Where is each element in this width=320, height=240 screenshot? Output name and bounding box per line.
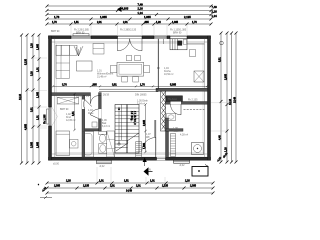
outer wall right [208,36,211,160]
legend box bottom right [192,165,209,177]
top dimension line row3 [46,11,218,18]
misc spec text [60,95,198,111]
svg-text:2,385: 2,385 [54,185,61,188]
misc tiny interior texts [86,94,147,99]
svg-text:1,24: 1,24 [138,11,144,15]
room 1.08 label [173,127,188,137]
svg-text:1,76: 1,76 [52,21,57,24]
svg-text:1,26: 1,26 [156,21,161,24]
svg-text:2,26: 2,26 [185,180,190,183]
kitchen divider line V1 [157,39,159,89]
svg-text:,885: ,885 [144,21,149,24]
hall interior vertical dim line [143,103,147,153]
svg-text:o.K.Fb: o.K.Fb [76,95,84,98]
inner finish line bottom [52,153,208,155]
svg-text:31,48 m²: 31,48 m² [97,76,107,79]
svg-text:1,76: 1,76 [192,21,197,24]
svg-text:10,52 m²: 10,52 m² [164,73,174,76]
svg-text:±0,00: ±0,00 [53,163,60,166]
sofa L-shape [56,45,77,78]
svg-text:12,05 m²: 12,05 m² [66,119,76,122]
svg-text:3,51: 3,51 [112,84,117,87]
coffee table [77,61,93,71]
witness lines right [211,103,226,131]
hall partition thin wall [155,120,157,157]
svg-text:1,51: 1,51 [74,21,79,24]
svg-text:1,385: 1,385 [37,91,40,98]
bath door opening + arc [90,109,101,119]
svg-text:6,13 m²: 6,13 m² [102,125,110,128]
svg-text:2,26: 2,26 [31,43,34,48]
svg-text:7,49: 7,49 [138,2,144,6]
inner finish line left [54,39,56,158]
door leaves arcs [118,39,130,51]
kind room door opening + leaf [82,100,92,110]
svg-text:DIN 18065: DIN 18065 [135,94,147,97]
svg-text:2,26: 2,26 [138,7,144,11]
left dimension line col3 [31,34,35,165]
svg-text:1,76: 1,76 [140,84,145,87]
svg-text:4,48: 4,48 [219,135,222,140]
stairs outline [115,105,139,154]
svg-text:1,01: 1,01 [99,180,104,183]
svg-text:Abst.: Abst. [173,130,179,133]
Hs-Anst shaft dark box [166,96,183,102]
right small circle symbol [220,41,224,45]
svg-text:2,135: 2,135 [184,15,191,19]
chair right [144,66,150,73]
svg-text:3,51: 3,51 [72,111,75,116]
svg-text:N: N [149,169,151,172]
svg-text:1,885: 1,885 [144,15,151,19]
chairs top [127,55,132,61]
window top-left living [71,34,91,39]
left dimension line col1 [19,34,23,165]
svg-text:1,76: 1,76 [54,15,60,19]
svg-text:2,635: 2,635 [225,73,228,80]
bottom left partial row4 [40,197,52,199]
kind room interior dim line [72,93,76,131]
bath label [102,119,110,128]
bed kind room [56,131,70,156]
top dimension line row4 [46,15,213,20]
svg-text:4,855: 4,855 [25,123,28,130]
kind room label [66,113,76,122]
svg-text:10,24: 10,24 [229,98,232,105]
svg-text:1,01: 1,01 [37,67,40,72]
bottom dimension line row2 [46,185,215,190]
entrance step right / podest [174,160,190,167]
bottom dimension line row3 [46,190,215,195]
svg-text:26/19: 26/19 [103,94,110,97]
svg-text:*: * [38,184,39,187]
svg-text:Fb 2,385/2,135: Fb 2,385/2,135 [120,29,137,32]
svg-text:BRH 90: BRH 90 [51,30,60,33]
windfang label [146,133,151,139]
stair middle rail [126,105,128,154]
kitchen shaft X square [194,71,204,82]
svg-text:3,26: 3,26 [31,71,34,76]
svg-text:2,01: 2,01 [110,185,115,188]
kitchen counter right [190,50,196,57]
hall door leaf and swing arc [142,138,156,152]
svg-text:3,76: 3,76 [62,84,67,87]
radiator under stairs [136,142,142,159]
right dimension line col1 [219,32,223,164]
right dimension line col3 [229,32,233,164]
svg-text:2,01: 2,01 [136,185,141,188]
interior dim line above H1 [52,84,208,88]
entrance step left [97,160,112,168]
outer wall bottom [49,157,211,160]
top dimension line row5 detailed [46,21,213,26]
bath top wall H2 [85,129,99,131]
room 1.08 door arc [171,102,182,105]
wall H4 entrance top [166,129,183,132]
svg-text:14,49: 14,49 [126,190,133,193]
interior wall H1 left segment [52,88,208,95]
svg-text:3,51: 3,51 [31,107,34,112]
svg-text:7,49: 7,49 [212,5,218,9]
wall V2 kind/hall [82,96,85,158]
svg-text:2,385: 2,385 [190,185,197,188]
svg-text:5,385: 5,385 [170,84,177,87]
chair left [110,66,117,73]
svg-text:5,135: 5,135 [25,58,28,65]
shower [107,131,115,157]
chairs bottom [122,77,128,83]
window top kitchen-left [154,36,167,39]
bottom dimension line row1 [46,180,215,185]
wardrobe kind room [57,97,78,104]
svg-text:10,49: 10,49 [234,96,237,103]
svg-text:17,5/28,0: 17,5/28,0 [133,111,136,125]
wall V3 hall/bath [99,96,102,131]
svg-text:Diele: Diele [88,112,94,115]
svg-text:-0,02: -0,02 [179,164,185,167]
svg-text:2,01: 2,01 [123,21,128,24]
svg-text:-0,02: -0,02 [99,165,105,168]
window top kitchen-right with counter detail [170,36,204,50]
hall shelf [92,122,97,127]
door living->hall arc [91,96,99,104]
up arrow [118,108,120,145]
svg-text:2,135: 2,135 [162,185,169,188]
witness lines top [71,25,187,35]
svg-text:1,26: 1,26 [225,147,228,152]
witness lines left [28,58,47,128]
svg-text:2,26: 2,26 [66,180,71,183]
top dimension line row2 [46,7,218,14]
svg-text:3,385: 3,385 [31,141,34,148]
kitchen label [164,67,174,76]
break line [116,133,139,151]
bath sink [99,144,107,154]
svg-text:,885: ,885 [92,84,97,87]
north arrow top [117,7,122,13]
inner finish line top [52,41,208,43]
window swing V left [52,108,58,126]
svg-text:1,01: 1,01 [150,180,155,183]
radiator room 1.08 [171,134,176,157]
svg-text:5,51: 5,51 [219,57,222,62]
sideboard top [93,44,104,55]
hall2 label [137,100,148,106]
secondary finish lines [55,42,204,44]
outer wall top [49,36,211,160]
svg-text:5,64 m²: 5,64 m² [137,103,145,106]
svg-text:4,28 m²: 4,28 m² [180,134,188,137]
svg-text:1,51: 1,51 [124,180,129,183]
svg-text:1,01: 1,01 [37,115,40,120]
inner finish line right [203,39,205,158]
svg-text:4,305: 4,305 [122,7,129,11]
svg-text:1,885: 1,885 [37,141,40,148]
plant [74,46,83,56]
svg-text:BRH 90: BRH 90 [60,108,69,111]
stairs wall V4 hatched [161,91,166,131]
svg-text:Fb 2,135: Fb 2,135 [188,99,198,102]
svg-text:2,01: 2,01 [97,21,102,24]
svg-text:1,385: 1,385 [172,21,179,24]
wall V5 entrance/1.08 [166,131,169,157]
open boundary double line middle [99,88,158,90]
living room label [97,70,114,79]
sink room 1.08 top [167,114,176,121]
window labels above top wall [51,29,187,35]
wall H3 under shaft [166,102,208,105]
svg-text:2,135: 2,135 [83,185,90,188]
svg-text:Fb 1,385: Fb 1,385 [44,114,47,124]
door 1.08 leaf + arc [180,104,182,115]
bathtub / wardrobe [82,132,94,158]
svg-text:BRH 90: BRH 90 [173,32,182,35]
svg-text:18 Stg.: 18 Stg. [130,111,133,122]
outer wall left [49,36,52,160]
svg-text:Hs-Anst.: Hs-Anst. [168,98,178,101]
right dimension line col4 [234,32,238,164]
toilet [99,132,106,143]
hall label [88,109,94,115]
washing machine [192,143,204,155]
french door top middle [118,36,143,51]
witness lines bottom [97,167,165,182]
wall stub above entrance [165,118,169,131]
svg-text:2,635: 2,635 [143,119,146,126]
stair flight separator [121,105,123,141]
left dimension line col4 [37,34,41,165]
svg-text:WF: WF [146,136,150,139]
nightstand with lamp [70,140,79,149]
window left wall (kind room) [47,107,52,126]
dining table [117,62,144,76]
treads [115,107,139,109]
svg-text:10,24: 10,24 [19,93,22,100]
left dimension line col2 [25,34,29,165]
top dimension line row1 [46,2,218,9]
entrance door opening in bottom wall [157,157,166,160]
svg-text:1,885: 1,885 [100,15,107,19]
dashed beam line 1.08 [184,109,205,111]
right dimension line col2 [225,32,229,164]
svg-text:1,885: 1,885 [37,43,40,50]
north arrow bottom [144,167,153,175]
entrance marker arrow [143,158,147,167]
